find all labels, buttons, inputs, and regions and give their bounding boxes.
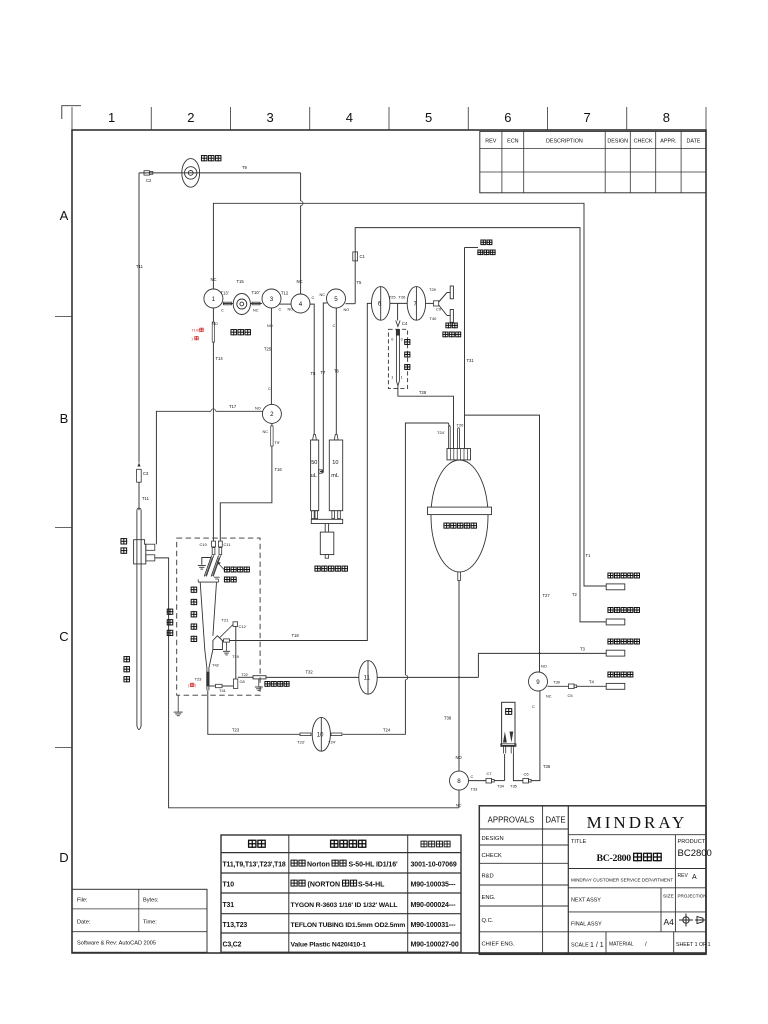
svg-text:REV: REV xyxy=(678,873,689,879)
svg-text:C6: C6 xyxy=(524,772,530,777)
svg-text:T14'(: T14'( xyxy=(192,329,201,333)
svg-text:BC2800: BC2800 xyxy=(678,848,712,859)
valve 9 xyxy=(529,672,548,691)
svg-text:C10: C10 xyxy=(200,542,208,547)
svg-text:A4: A4 xyxy=(664,917,675,927)
chamber label xyxy=(444,523,449,528)
svg-text:PRODUCT: PRODUCT xyxy=(678,839,706,845)
svg-text:T11,T9,T13',T23',T18: T11,T9,T13',T23',T18 xyxy=(223,862,286,869)
svg-text:C: C xyxy=(333,324,336,328)
svg-text:T42: T42 xyxy=(212,663,220,668)
tube stub T24' xyxy=(447,427,449,449)
svg-text:T24': T24' xyxy=(328,740,336,745)
svg-text:uL: uL xyxy=(311,473,317,479)
wire B diluent bus: C1 to diluent port xyxy=(355,228,606,622)
connector C10 xyxy=(212,541,216,547)
svg-text:Value Plastic N420/410-1: Value Plastic N420/410-1 xyxy=(291,942,367,949)
valve 1 xyxy=(204,289,223,308)
connector C3 xyxy=(137,463,140,467)
svg-text:NO: NO xyxy=(267,324,273,328)
svg-text:C3: C3 xyxy=(143,471,149,476)
valve 4 xyxy=(291,294,310,313)
svg-text:T2: T2 xyxy=(572,592,578,597)
slanted sample tubes xyxy=(204,556,211,577)
wire T3 to rinse port xyxy=(478,653,606,677)
svg-text:SCALE: SCALE xyxy=(571,943,589,949)
svg-text:PROJECTION: PROJECTION xyxy=(678,894,707,899)
svg-text:FINAL ASSY: FINAL ASSY xyxy=(571,922,602,928)
wire T31 pressure sensor to chamber xyxy=(464,248,466,449)
svg-text:MINDRAY: MINDRAY xyxy=(587,813,688,832)
tube fitting T13' xyxy=(223,303,233,305)
svg-text:T11: T11 xyxy=(142,496,150,501)
wire valve5 NO to T5 riser xyxy=(346,303,356,305)
svg-text:Q.C.: Q.C. xyxy=(482,918,494,924)
svg-text:NEXT ASSY: NEXT ASSY xyxy=(571,898,601,904)
wire valve6 to valve7 xyxy=(390,302,407,304)
wire T27 to valve9 xyxy=(465,415,540,672)
sampling probe xyxy=(136,510,138,726)
pump box xyxy=(502,702,515,745)
svg-text:10: 10 xyxy=(332,460,338,466)
pressure sensor stub xyxy=(465,247,479,249)
svg-text:DESIGN: DESIGN xyxy=(482,836,504,842)
wire T12 valve3 to valve4 xyxy=(279,303,292,305)
valve 8 xyxy=(450,771,469,790)
connector C6 xyxy=(523,778,529,783)
svg-text:C5: C5 xyxy=(568,693,574,698)
svg-text:NC: NC xyxy=(320,293,326,297)
svg-text:DATE: DATE xyxy=(687,139,701,145)
metering tube dashed box xyxy=(388,329,407,388)
svg-text:T8: T8 xyxy=(311,371,317,376)
title block xyxy=(479,806,706,955)
svg-text:Software & Rev: AutoCAD 2005: Software & Rev: AutoCAD 2005 xyxy=(77,941,156,947)
svg-text:C: C xyxy=(221,309,224,313)
bottom cell wire with fittings xyxy=(209,685,216,687)
svg-text:T24': T24' xyxy=(437,430,445,435)
svg-text:T26: T26 xyxy=(399,295,407,300)
chamber bottom fitting xyxy=(458,572,461,581)
svg-text:M90-000024---: M90-000024--- xyxy=(411,902,457,909)
cell spout tube T23 xyxy=(206,668,208,690)
wire T28 metering tube to chamber xyxy=(398,386,454,449)
pump tubes xyxy=(503,746,505,753)
connector C11 xyxy=(218,541,222,547)
valve 7 pinch xyxy=(407,287,425,321)
svg-text:T4: T4 xyxy=(589,680,595,685)
air filter lower xyxy=(447,315,450,317)
wire T6 valve5 to 10mL syringe xyxy=(335,308,337,434)
stainless sample tube label with arrow xyxy=(224,567,229,572)
wire to C12 xyxy=(220,625,233,638)
air filter label xyxy=(446,323,451,328)
svg-text:T16: T16 xyxy=(275,467,283,472)
svg-text:NC: NC xyxy=(546,695,552,699)
svg-text:T28: T28 xyxy=(419,390,427,395)
svg-text:T14: T14 xyxy=(216,356,224,361)
vacuum chamber comb manifold xyxy=(447,449,471,460)
svg-text:T23: T23 xyxy=(232,728,240,733)
left ruler ticks and row letters xyxy=(55,316,72,318)
svg-text:C12: C12 xyxy=(239,624,247,629)
svg-text:4: 4 xyxy=(346,110,353,125)
svg-text:50: 50 xyxy=(311,460,317,466)
svg-text:T24: T24 xyxy=(383,728,391,733)
aperture housing xyxy=(213,636,223,650)
wire T38 chamber to valve8 xyxy=(458,581,460,772)
wire T8 valve4 to 50uL syringe xyxy=(310,304,314,434)
svg-text:C: C xyxy=(268,387,271,391)
svg-text:A: A xyxy=(692,874,697,881)
wire T9 reservoir line xyxy=(139,172,301,174)
projection symbols xyxy=(679,914,705,927)
wire rail clamp to valve8 NC xyxy=(155,558,459,808)
clamp (jia zi) xyxy=(134,540,146,564)
microscopy coil T15 xyxy=(233,294,250,315)
valve10 right tube T24' xyxy=(331,733,342,736)
svg-text:T3: T3 xyxy=(580,647,586,652)
50uL syringe xyxy=(311,440,319,511)
svg-text:T20: T20 xyxy=(457,423,465,428)
svg-text:S-50-HL ID1/16': S-50-HL ID1/16' xyxy=(349,862,398,869)
wire valve4 feed from T9 xyxy=(300,173,302,201)
svg-text:C: C xyxy=(59,629,68,644)
valve 5 xyxy=(327,289,346,308)
svg-text:9: 9 xyxy=(536,679,540,686)
svg-text:REV: REV xyxy=(485,139,496,145)
wire T18 bus: cell fitting to valve6 xyxy=(230,303,372,640)
syringe motor box xyxy=(320,532,334,555)
svg-text:T9': T9' xyxy=(275,440,281,445)
svg-text:T13': T13' xyxy=(221,291,229,296)
svg-text:5: 5 xyxy=(334,296,338,303)
valve 2 xyxy=(262,404,281,423)
small ground under tube tip xyxy=(214,576,220,578)
svg-text:3: 3 xyxy=(270,296,274,303)
connector C8 xyxy=(233,679,237,688)
svg-text:T10': T10' xyxy=(252,290,260,295)
shield box label xyxy=(167,609,173,614)
svg-text:M90-100031---: M90-100031--- xyxy=(411,922,457,929)
svg-text:T25: T25 xyxy=(389,295,397,300)
svg-text:1: 1 xyxy=(391,376,393,380)
svg-text:B: B xyxy=(60,411,69,426)
parts list table xyxy=(221,835,461,952)
top ruler ticks and column numbers xyxy=(71,107,73,130)
svg-text:T25: T25 xyxy=(264,347,272,352)
svg-text:DESCRIPTION: DESCRIPTION xyxy=(546,139,583,145)
svg-text:NC: NC xyxy=(297,279,303,284)
svg-text:NO: NO xyxy=(255,407,261,411)
wire valve7 to air filters xyxy=(426,302,434,304)
wire valve11 to T3 jog xyxy=(377,676,478,678)
svg-text:mL: mL xyxy=(331,473,339,479)
svg-text:R&D: R&D xyxy=(482,874,494,880)
connector C5 xyxy=(569,684,575,689)
svg-text:NO: NO xyxy=(456,755,463,760)
svg-text:T9: T9 xyxy=(242,165,248,170)
svg-text:T22: T22 xyxy=(241,672,249,677)
svg-text:T21: T21 xyxy=(222,618,230,623)
wire to stainless tube xyxy=(238,676,253,678)
pump label xyxy=(506,709,512,715)
svg-text:D: D xyxy=(59,850,68,865)
svg-text:M90-100035---: M90-100035--- xyxy=(411,882,457,889)
file info table xyxy=(72,889,207,952)
svg-text:T35: T35 xyxy=(510,784,518,789)
svg-text:8: 8 xyxy=(457,778,461,785)
wire pump to valve9 via C6 xyxy=(513,754,523,781)
valve 11 pinch xyxy=(359,661,377,695)
ground wire left of cell xyxy=(202,558,211,565)
svg-text:T27: T27 xyxy=(543,593,551,598)
svg-text:Bytes:: Bytes: xyxy=(143,898,159,904)
svg-text:(NORTON: (NORTON xyxy=(308,882,341,889)
svg-text:2: 2 xyxy=(187,110,194,125)
svg-text:4: 4 xyxy=(299,301,303,308)
diluent port xyxy=(606,619,625,625)
svg-text:C1: C1 xyxy=(360,254,366,259)
svg-text:A: A xyxy=(60,208,69,223)
svg-text:C8: C8 xyxy=(240,679,246,684)
svg-text:2: 2 xyxy=(270,411,274,418)
svg-text:ENG.: ENG. xyxy=(482,895,497,901)
svg-text:T17: T17 xyxy=(229,404,237,409)
svg-text:T15: T15 xyxy=(237,279,245,284)
connector C7 xyxy=(486,778,492,783)
valve 3 xyxy=(262,289,281,308)
svg-text:DESIGN: DESIGN xyxy=(607,139,628,145)
connector C9 xyxy=(434,301,439,306)
lyse reagent port xyxy=(606,584,625,590)
valve10 left tube T23' xyxy=(300,733,311,736)
svg-text:T19: T19 xyxy=(232,654,240,659)
wire T17 valve2 to clamp xyxy=(216,410,263,412)
svg-text:M90-100027-00: M90-100027-00 xyxy=(411,942,459,949)
svg-text:S-54-HL: S-54-HL xyxy=(358,882,385,889)
svg-text:0: 0 xyxy=(401,338,403,342)
svg-text:TYGON R-3603 1/16' ID 1/32' WA: TYGON R-3603 1/16' ID 1/32' WALL xyxy=(291,902,398,909)
wire T14 valve1 to C10 xyxy=(212,308,214,322)
svg-text:T31: T31 xyxy=(467,358,475,363)
svg-text:C3,C2: C3,C2 xyxy=(223,942,242,949)
svg-text:8: 8 xyxy=(663,110,670,125)
wire T16 valve2 to C11 xyxy=(271,423,273,426)
pump arrows xyxy=(503,732,507,743)
T18 fitting and ground at cell xyxy=(224,639,230,642)
wire T19 from C12 down xyxy=(235,626,237,678)
svg-text:T18: T18 xyxy=(292,633,300,638)
svg-text:T10: T10 xyxy=(223,882,235,889)
connector C4 to metering tube xyxy=(397,303,399,320)
svg-text:TITLE: TITLE xyxy=(571,839,586,845)
svg-text:): ) xyxy=(192,337,193,341)
wire T39 valve9 to waste port xyxy=(548,685,569,687)
svg-text:Time:: Time: xyxy=(143,920,157,926)
corner mark xyxy=(62,106,81,119)
svg-text:6: 6 xyxy=(504,110,511,125)
wire T32 to valve 11 xyxy=(266,676,359,678)
vacuum chamber body xyxy=(431,460,488,572)
svg-text:T23': T23' xyxy=(297,740,305,745)
shield box dashed xyxy=(177,538,260,695)
syringe drive rods xyxy=(324,524,326,533)
svg-text:T33: T33 xyxy=(471,787,479,792)
svg-text:BC-2800: BC-2800 xyxy=(597,853,632,864)
stainless steel tube xyxy=(253,676,266,679)
svg-text:NO: NO xyxy=(344,308,350,312)
svg-text:TEFLON TUBING ID1.5mm OD2.5mm: TEFLON TUBING ID1.5mm OD2.5mm xyxy=(291,922,406,929)
svg-text:CHIEF ENG.: CHIEF ENG. xyxy=(482,942,516,948)
svg-text:T11: T11 xyxy=(136,264,144,269)
tube stub T20 xyxy=(457,429,459,449)
sampling probe label xyxy=(124,657,130,662)
svg-text:3001-10-07069: 3001-10-07069 xyxy=(411,862,457,869)
svg-text:NC: NC xyxy=(253,309,259,313)
svg-text:0: 0 xyxy=(391,338,393,342)
svg-text:T12: T12 xyxy=(281,291,289,296)
svg-text:7: 7 xyxy=(584,110,591,125)
svg-text:MINDRAY CUSTOMER SERVICE DEPAR: MINDRAY CUSTOMER SERVICE DEPARTMENT xyxy=(571,878,673,883)
chamber band xyxy=(428,507,492,514)
svg-text:File:: File: xyxy=(77,898,88,904)
svg-text:T23: T23 xyxy=(195,677,203,682)
svg-text:T6: T6 xyxy=(334,369,340,374)
parts table header xyxy=(249,840,256,847)
wire T25 valve3 to valve2 xyxy=(270,308,272,404)
svg-text:CHECK: CHECK xyxy=(634,139,653,145)
air filter upper xyxy=(447,292,450,294)
svg-text:10: 10 xyxy=(317,733,324,739)
50uL side port xyxy=(319,470,322,473)
wire valve8 to pump via C7 xyxy=(469,780,487,782)
svg-text:T1: T1 xyxy=(586,553,592,558)
svg-text:C: C xyxy=(312,296,315,300)
svg-text:SIZE: SIZE xyxy=(663,894,674,900)
syringe assembly label xyxy=(315,566,320,571)
svg-text:T38: T38 xyxy=(444,716,452,721)
wire A lyse bus: valve1 top to lyse port xyxy=(213,203,606,586)
syringe manifold bar xyxy=(311,519,342,523)
svg-text:T32: T32 xyxy=(306,670,314,675)
wire T7 valve5 to 50uL side port xyxy=(320,303,327,472)
10mL syringe xyxy=(329,440,342,511)
svg-text:SHEET 1 OF 1: SHEET 1 OF 1 xyxy=(676,942,711,948)
metering tube xyxy=(395,329,397,381)
svg-text:Date:: Date: xyxy=(77,920,91,926)
svg-text:Norton: Norton xyxy=(307,862,330,869)
counting cell body xyxy=(198,581,218,583)
svg-text:T39: T39 xyxy=(553,680,561,685)
svg-text:C7: C7 xyxy=(487,771,493,776)
svg-text:APPROVALS: APPROVALS xyxy=(488,816,535,825)
svg-text:): ) xyxy=(195,684,196,688)
svg-text:C: C xyxy=(471,775,474,779)
svg-text:T36: T36 xyxy=(543,764,551,769)
wire T24 chamber to valve10 xyxy=(405,423,448,675)
connector C2 xyxy=(144,171,149,175)
rinse port xyxy=(606,650,625,656)
wire T23 cell to valve10 xyxy=(208,690,300,734)
svg-text:1: 1 xyxy=(401,376,403,380)
svg-text:T7: T7 xyxy=(321,370,327,375)
connector C1 xyxy=(353,252,358,261)
svg-text:NO: NO xyxy=(541,665,547,669)
svg-text:5: 5 xyxy=(425,110,432,125)
valve 10 pinch xyxy=(312,717,330,751)
svg-text:T34: T34 xyxy=(497,784,505,789)
svg-text:C11: C11 xyxy=(224,542,232,547)
svg-text:C2: C2 xyxy=(146,178,152,183)
svg-text:C: C xyxy=(532,705,535,709)
counting cell assembly label xyxy=(191,587,197,592)
wire T11 left drop to probe xyxy=(138,173,140,463)
svg-text:C4: C4 xyxy=(402,321,408,326)
waste port xyxy=(606,683,625,689)
reservoir coil (chu ye guan) xyxy=(182,159,200,188)
svg-text:CHECK: CHECK xyxy=(482,853,502,859)
svg-text:1: 1 xyxy=(108,110,115,125)
svg-text:NC: NC xyxy=(263,430,269,434)
tube fitting T10' xyxy=(250,303,262,305)
shield box ground xyxy=(177,695,179,712)
svg-text:NC: NC xyxy=(211,277,217,282)
svg-text:1: 1 xyxy=(212,296,216,303)
svg-text:C: C xyxy=(279,308,282,312)
syringe feet xyxy=(312,511,315,519)
svg-text:T40: T40 xyxy=(430,316,438,321)
drawing frame border xyxy=(72,130,706,953)
svg-text:ECN: ECN xyxy=(507,139,518,145)
svg-text:MATERIAL: MATERIAL xyxy=(609,942,634,948)
svg-text:APPR.: APPR. xyxy=(660,139,676,145)
svg-text:T29: T29 xyxy=(429,287,437,292)
svg-text:11: 11 xyxy=(364,676,371,682)
svg-text:1 / 1: 1 / 1 xyxy=(590,942,604,949)
svg-text:T13,T23: T13,T23 xyxy=(223,922,248,929)
svg-text:T31: T31 xyxy=(223,902,235,909)
svg-text:3: 3 xyxy=(267,110,274,125)
valve 6 pinch xyxy=(372,287,390,321)
svg-text:T5: T5 xyxy=(357,280,363,285)
revision history table xyxy=(480,131,706,192)
svg-text:NO: NO xyxy=(288,308,294,312)
svg-text:DATE: DATE xyxy=(545,816,565,825)
svg-text:T41: T41 xyxy=(219,688,227,693)
